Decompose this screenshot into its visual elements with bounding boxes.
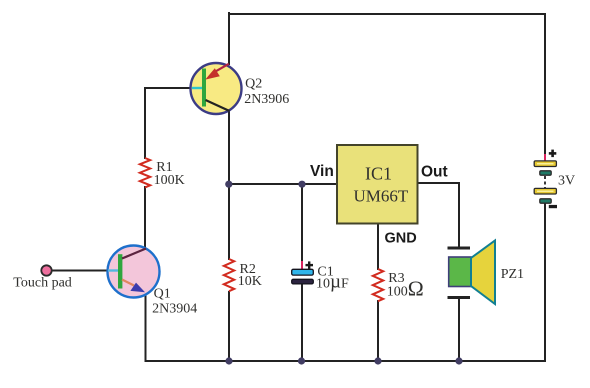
svg-text:PZ1: PZ1 xyxy=(501,267,524,282)
svg-text:Vin: Vin xyxy=(310,163,334,180)
svg-text:3V: 3V xyxy=(558,173,575,188)
svg-text:2N3904: 2N3904 xyxy=(152,302,197,317)
svg-text:UM66T: UM66T xyxy=(354,187,409,206)
svg-text:Touch pad: Touch pad xyxy=(13,275,72,290)
svg-text:GND: GND xyxy=(385,231,417,247)
svg-text:Q2: Q2 xyxy=(245,76,262,91)
svg-text:2N3906: 2N3906 xyxy=(244,92,289,107)
svg-text:Q1: Q1 xyxy=(154,287,171,302)
svg-text:Out: Out xyxy=(421,164,448,181)
svg-text:100K: 100K xyxy=(154,173,185,188)
svg-text:IC1: IC1 xyxy=(365,163,392,183)
svg-text:10K: 10K xyxy=(238,274,262,289)
